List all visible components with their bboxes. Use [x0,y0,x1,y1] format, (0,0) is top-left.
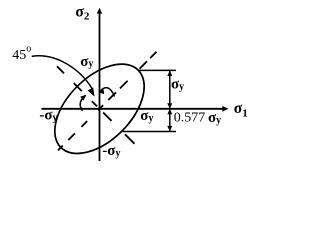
svg-text:σy: σy [171,77,184,93]
svg-text:σ2: σ2 [75,3,89,22]
svg-text:σy: σy [80,54,93,70]
svg-text:σy: σy [208,110,221,126]
svg-text:-σy: -σy [102,143,120,159]
svg-text:-σy: -σy [39,107,57,123]
svg-text:σy: σy [140,108,153,124]
svg-text:σ1: σ1 [234,100,248,119]
svg-text:0.577: 0.577 [174,111,206,126]
svg-text:45o: 45o [12,44,31,63]
